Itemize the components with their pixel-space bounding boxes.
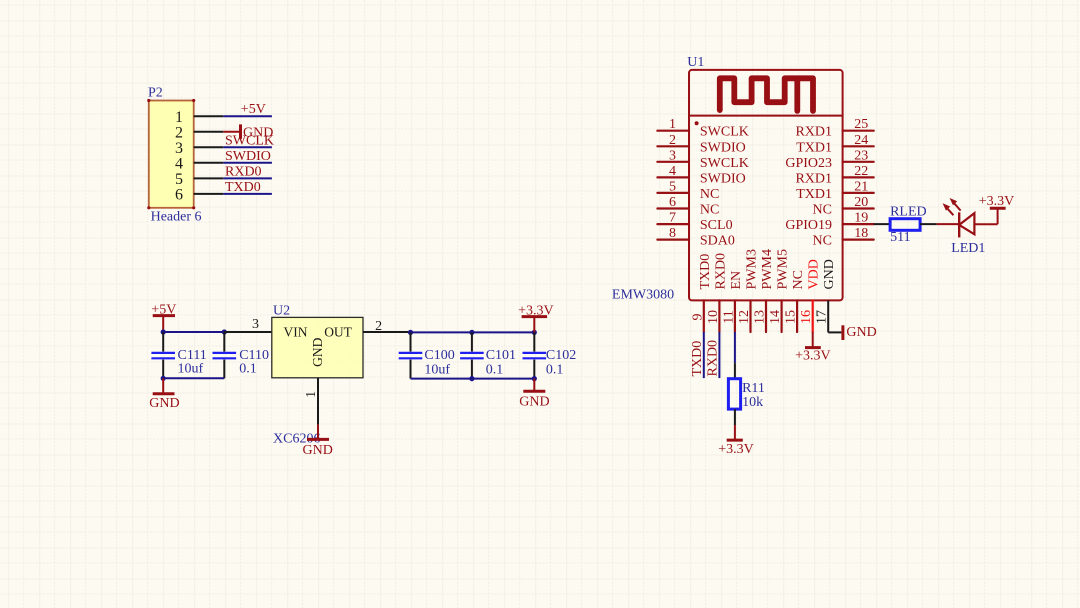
svg-text:6: 6: [669, 195, 676, 210]
svg-text:10: 10: [706, 310, 721, 324]
svg-text:TXD1: TXD1: [796, 187, 832, 202]
svg-text:+3.3V: +3.3V: [718, 442, 754, 457]
svg-text:EN: EN: [729, 271, 744, 290]
svg-text:GPIO19: GPIO19: [785, 218, 832, 233]
svg-text:1: 1: [304, 391, 319, 398]
svg-text:14: 14: [768, 310, 783, 324]
svg-text:SWDIO: SWDIO: [700, 140, 746, 155]
svg-text:C102: C102: [546, 348, 576, 363]
svg-text:TXD0: TXD0: [690, 341, 705, 377]
svg-text:U2: U2: [273, 303, 290, 318]
svg-text:5: 5: [669, 179, 676, 194]
svg-text:9: 9: [690, 314, 705, 321]
svg-text:TXD1: TXD1: [796, 140, 832, 155]
svg-text:EMW3080: EMW3080: [612, 288, 674, 303]
svg-text:3: 3: [669, 148, 676, 163]
svg-text:1: 1: [669, 117, 676, 132]
svg-text:13: 13: [753, 310, 768, 324]
svg-text:6: 6: [175, 187, 183, 204]
svg-text:10uf: 10uf: [424, 362, 450, 377]
svg-text:PWM3: PWM3: [745, 249, 760, 289]
svg-text:24: 24: [854, 133, 868, 148]
svg-text:PWM4: PWM4: [760, 249, 775, 289]
svg-text:19: 19: [854, 211, 868, 226]
svg-text:10uf: 10uf: [178, 361, 204, 376]
svg-text:VDD: VDD: [807, 259, 822, 289]
svg-text:SWCLK: SWCLK: [700, 125, 749, 140]
svg-text:LED1: LED1: [951, 241, 985, 256]
svg-text:16: 16: [799, 310, 814, 324]
svg-text:RXD0: RXD0: [713, 253, 728, 290]
svg-text:RLED: RLED: [890, 205, 927, 220]
svg-text:NC: NC: [700, 187, 719, 202]
svg-text:+5V: +5V: [241, 102, 266, 117]
svg-text:4: 4: [669, 164, 676, 179]
svg-text:SWCLK: SWCLK: [225, 133, 274, 148]
svg-text:NC: NC: [813, 234, 832, 249]
svg-text:GND: GND: [310, 337, 325, 366]
svg-text:3: 3: [175, 140, 183, 157]
svg-text:NC: NC: [791, 270, 806, 289]
svg-text:5: 5: [175, 171, 183, 188]
svg-text:RXD0: RXD0: [225, 164, 262, 179]
svg-text:Header 6: Header 6: [151, 209, 202, 224]
svg-text:11: 11: [721, 310, 736, 323]
svg-text:GND: GND: [303, 443, 333, 458]
svg-text:4: 4: [175, 156, 183, 173]
svg-text:C100: C100: [424, 348, 454, 363]
svg-text:12: 12: [737, 310, 752, 324]
svg-text:0.1: 0.1: [239, 361, 257, 376]
svg-text:8: 8: [669, 226, 676, 241]
svg-text:SWDIO: SWDIO: [225, 149, 271, 164]
svg-text:SWDIO: SWDIO: [700, 171, 746, 186]
svg-text:RXD1: RXD1: [795, 171, 832, 186]
svg-text:20: 20: [854, 195, 868, 210]
svg-text:C101: C101: [486, 348, 516, 363]
svg-text:10k: 10k: [742, 395, 763, 410]
svg-text:1: 1: [175, 109, 183, 126]
svg-text:511: 511: [890, 230, 910, 245]
svg-text:21: 21: [854, 179, 868, 194]
svg-text:15: 15: [784, 310, 799, 324]
svg-text:VIN: VIN: [284, 325, 308, 340]
svg-text:GND: GND: [822, 259, 837, 289]
svg-text:SDA0: SDA0: [700, 234, 735, 249]
svg-text:2: 2: [175, 125, 183, 142]
svg-text:GND: GND: [149, 396, 179, 411]
svg-text:0.1: 0.1: [546, 362, 564, 377]
svg-text:17: 17: [815, 310, 830, 324]
svg-text:NC: NC: [813, 203, 832, 218]
svg-text:SWCLK: SWCLK: [700, 156, 749, 171]
svg-text:25: 25: [854, 117, 868, 132]
svg-text:+3.3V: +3.3V: [795, 349, 831, 364]
svg-text:R11: R11: [742, 381, 765, 396]
svg-text:U1: U1: [687, 55, 704, 70]
svg-text:GPIO23: GPIO23: [785, 156, 832, 171]
svg-text:SCL0: SCL0: [700, 218, 733, 233]
svg-text:TXD0: TXD0: [698, 254, 713, 290]
svg-text:RXD1: RXD1: [795, 125, 832, 140]
svg-text:2: 2: [375, 319, 382, 334]
svg-text:OUT: OUT: [324, 325, 352, 340]
svg-text:GND: GND: [846, 325, 876, 340]
svg-text:P2: P2: [148, 85, 163, 100]
svg-text:RXD0: RXD0: [705, 340, 720, 377]
svg-text:7: 7: [669, 211, 676, 226]
svg-text:18: 18: [854, 226, 868, 241]
svg-text:NC: NC: [700, 203, 719, 218]
svg-text:+3.3V: +3.3V: [979, 194, 1015, 209]
svg-text:PWM5: PWM5: [776, 249, 791, 289]
svg-text:TXD0: TXD0: [225, 180, 261, 195]
svg-text:2: 2: [669, 133, 676, 148]
svg-text:22: 22: [854, 164, 868, 179]
svg-text:GND: GND: [519, 395, 549, 410]
svg-text:23: 23: [854, 148, 868, 163]
svg-text:3: 3: [252, 317, 259, 332]
svg-text:0.1: 0.1: [486, 362, 504, 377]
